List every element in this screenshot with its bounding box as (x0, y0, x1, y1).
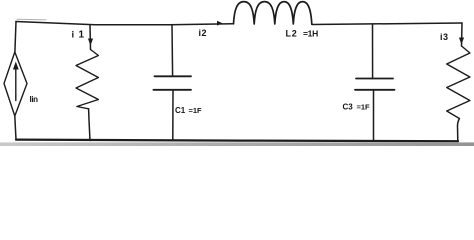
capacitor C3 bottom lead (373, 90, 375, 141)
wire top rail right segment (312, 23, 462, 25)
capacitor C3 bottom plate (355, 89, 395, 91)
resistor R3 top lead (461, 23, 464, 46)
resistor R1 top lead (89, 25, 92, 50)
svg-text:Iin: Iin (30, 95, 39, 104)
wire left vertical (source top lead) (15, 22, 16, 53)
svg-text:C1=1F: C1=1F (175, 106, 202, 115)
resistor R1 zigzag (76, 50, 98, 109)
capacitor C3 top plate (356, 78, 393, 80)
resistor R1 bottom lead (89, 109, 90, 141)
svg-text:i3: i3 (440, 32, 449, 42)
inductor L2 winding (234, 2, 312, 24)
capacitor C1 bottom plate (153, 89, 191, 91)
svg-text:L2=1H: L2=1H (286, 29, 319, 39)
resistor R3 bottom lead (458, 119, 460, 142)
current arrowhead i2 on top rail (217, 21, 223, 26)
svg-text:i1: i1 (72, 30, 85, 41)
current source Iin diamond (4, 52, 27, 116)
capacitor C3 top lead (372, 24, 374, 78)
svg-text:i2: i2 (199, 28, 208, 38)
current source arrow shaft (15, 67, 17, 101)
scan smudge above top-left corner (17, 18, 46, 21)
resistor R3 zigzag (447, 46, 470, 119)
wire bottom rail (16, 140, 458, 142)
wire top rail left segment (16, 22, 233, 25)
capacitor C1 bottom lead (172, 90, 174, 140)
svg-text:C3=1F: C3=1F (343, 103, 371, 112)
current source arrowhead (13, 62, 19, 70)
scan artifact band (0, 142, 474, 146)
current arrowhead i1 (88, 39, 93, 46)
wire source bottom lead (15, 116, 16, 140)
capacitor C1 top plate (155, 75, 192, 77)
capacitor C1 top lead (171, 25, 174, 77)
current arrowhead i3 (459, 38, 464, 45)
